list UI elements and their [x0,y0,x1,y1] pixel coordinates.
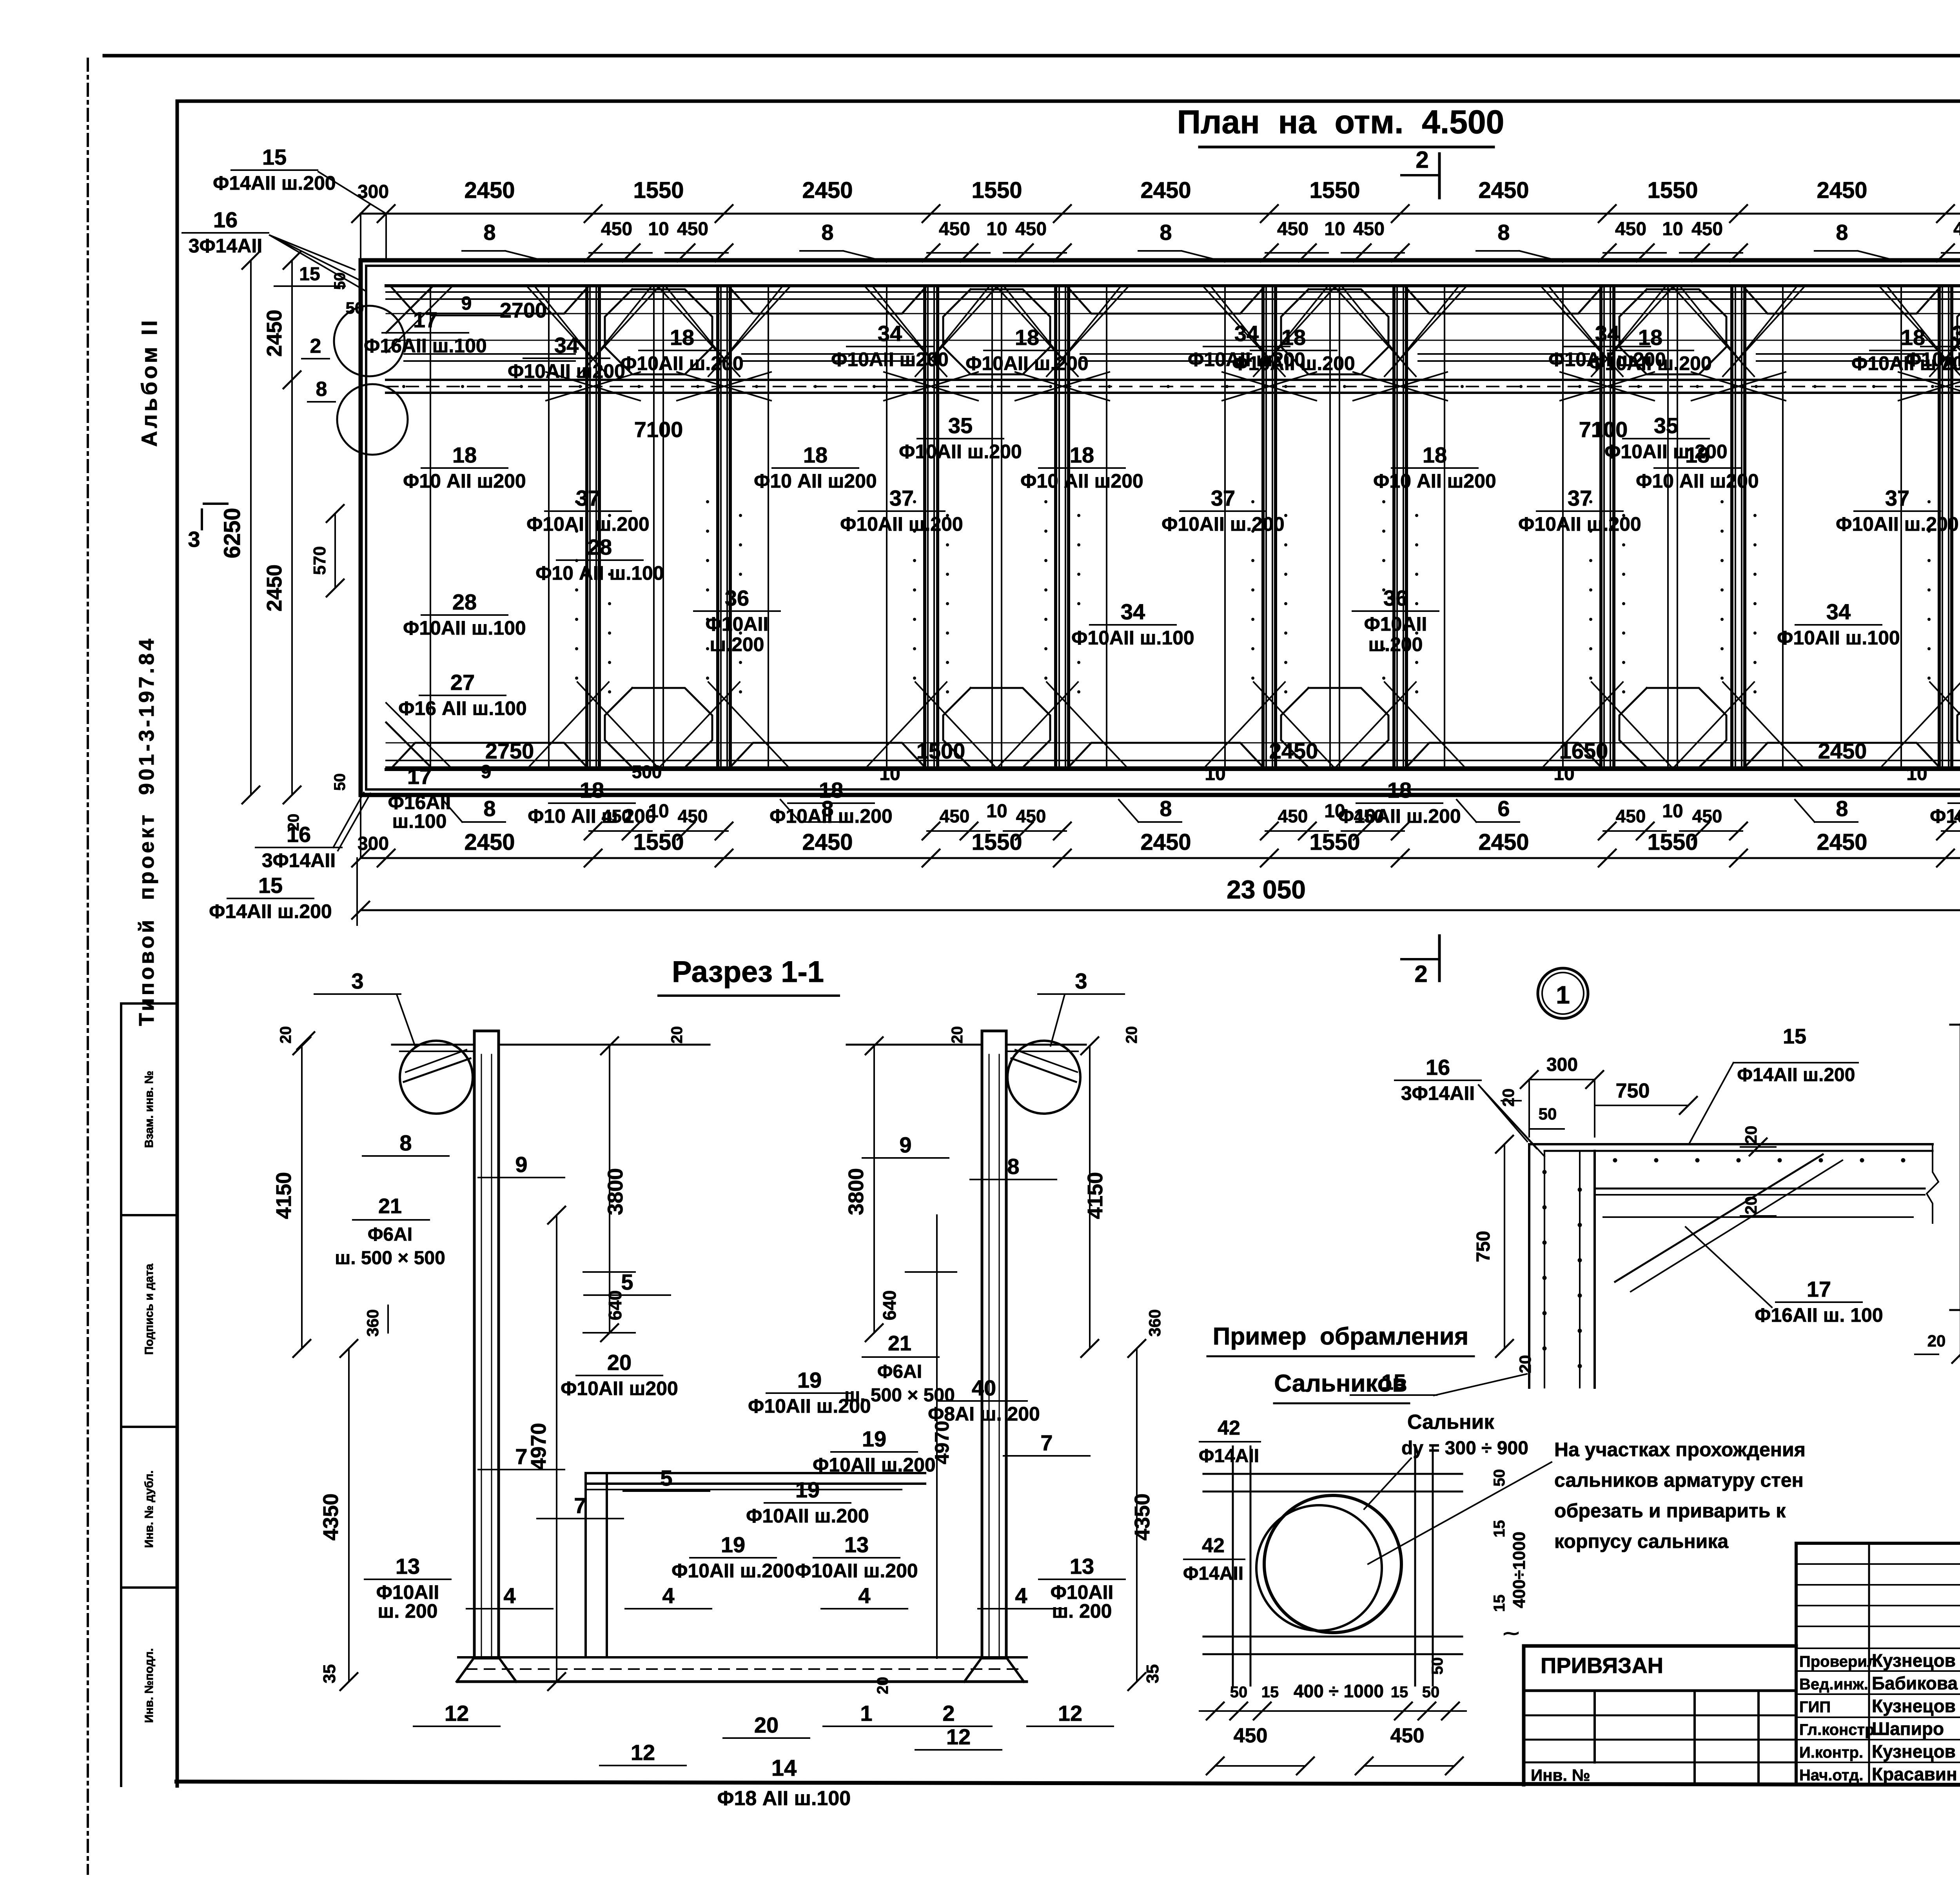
svg-text:21: 21 [378,1194,402,1218]
svg-text:12: 12 [631,1740,655,1765]
svg-text:2450: 2450 [1478,829,1529,855]
partition wall at x=1513 [585,286,588,769]
svg-text:19: 19 [721,1532,745,1557]
svg-text:Типовой проект 901-3-197.84: Типовой проект 901-3-197.84 [135,636,158,1026]
svg-text:6250: 6250 [220,508,245,558]
svg-text:2450: 2450 [802,178,853,203]
svg-text:обрезать и приварить к: обрезать и приварить к [1554,1500,1786,1522]
svg-text:400 ÷ 1000: 400 ÷ 1000 [1294,1681,1384,1701]
svg-text:450: 450 [1616,806,1646,826]
svg-text:20: 20 [1927,1332,1946,1350]
svg-text:dу = 300 ÷ 900: dу = 300 ÷ 900 [1401,1438,1528,1459]
footing flares [457,1657,474,1682]
svg-text:450: 450 [601,219,632,240]
svg-text:8: 8 [316,378,327,401]
title block [1524,1644,1796,1648]
svg-text:36: 36 [1383,586,1408,610]
left vertical dims [291,260,293,795]
svg-text:50: 50 [1429,1657,1446,1675]
svg-text:7100: 7100 [1579,417,1628,442]
svg-text:19: 19 [795,1477,820,1502]
svg-text:20: 20 [1499,1089,1517,1107]
salnik drawing [1203,1473,1462,1475]
svg-text:3: 3 [188,527,200,552]
svg-text:Φ14АII ш.200: Φ14АII ш.200 [1737,1065,1855,1085]
svg-text:450: 450 [1015,219,1047,240]
trapezoid hatch wide cell [1744,287,1940,314]
svg-text:15: 15 [299,264,320,285]
svg-text:34: 34 [554,333,579,357]
svg-text:План на отм. 4.500: План на отм. 4.500 [1177,103,1504,140]
partition wall at x=4963 [1938,286,1941,769]
svg-text:Φ10АII ш200: Φ10АII ш200 [508,360,625,382]
svg-text:2700: 2700 [500,299,547,322]
svg-text:450: 450 [1234,1724,1268,1747]
svg-text:5: 5 [660,1466,672,1490]
svg-text:6: 6 [1497,796,1510,821]
svg-text:4150: 4150 [272,1172,296,1219]
svg-text:Φ10АII ш.100: Φ10АII ш.100 [403,617,526,639]
svg-text:8: 8 [1836,220,1848,245]
svg-text:2450: 2450 [802,829,853,855]
svg-text:Φ10АII ш.200: Φ10АII ш.200 [899,441,1022,463]
svg-text:Φ10АIIш. 200: Φ10АIIш. 200 [1051,1581,1114,1622]
svg-text:Пример обрамления: Пример обрамления [1213,1323,1468,1350]
svg-text:1650: 1650 [1559,739,1608,763]
svg-text:Φ10АII ш.200: Φ10АII ш.200 [746,1505,869,1527]
svg-text:Φ16 АII ш.100: Φ16 АII ш.100 [398,697,526,719]
svg-text:Φ10АII ш.200: Φ10АII ш.200 [1518,513,1641,535]
svg-text:15: 15 [262,145,287,169]
svg-text:27: 27 [450,670,475,695]
svg-text:37: 37 [1885,486,1909,510]
svg-text:20: 20 [277,1026,294,1044]
svg-text:Красавин: Красавин [1872,1764,1957,1784]
svg-text:2: 2 [310,335,321,357]
svg-text:2450: 2450 [1269,739,1318,763]
svg-text:1550: 1550 [971,178,1022,203]
svg-text:1550: 1550 [1309,178,1360,203]
svg-text:2450: 2450 [1140,178,1191,203]
svg-text:13: 13 [1070,1554,1094,1579]
svg-text:Φ10АII ш.200: Φ10АII ш.200 [1836,513,1958,535]
plan bottom wall inner face [386,768,1960,771]
trapezoid hatch wide cell [392,287,588,314]
svg-text:19: 19 [797,1368,822,1392]
detail 1 circle [1538,968,1588,1018]
svg-text:34: 34 [878,321,902,346]
svg-text:2450: 2450 [464,829,515,855]
svg-text:10: 10 [1205,764,1225,784]
dotted columns at partitions [575,500,578,503]
svg-text:ГИП: ГИП [1799,1698,1831,1716]
sheet bottom border [176,1782,1960,1786]
detail 1 slab end break [1927,1144,1938,1223]
sheet outer top border [104,54,1960,58]
left stamp strip [120,1003,122,1786]
svg-text:1550: 1550 [1647,829,1698,855]
svg-text:9: 9 [899,1132,911,1157]
svg-text:Подпись и дата: Подпись и дата [143,1263,156,1355]
svg-text:450: 450 [1953,219,1960,240]
svg-text:Φ10АII ш.100: Φ10АII ш.100 [1071,627,1194,649]
detail 1 top surface and slab [1529,1143,1933,1145]
svg-text:1550: 1550 [633,178,684,203]
svg-text:15: 15 [1261,1684,1279,1701]
svg-text:Φ10АII ш200: Φ10АII ш200 [1188,348,1305,370]
svg-text:19: 19 [862,1426,886,1451]
rebar dots along mid wall [402,385,405,388]
svg-text:20: 20 [874,1677,891,1695]
svg-text:Φ10АII ш.200: Φ10АII ш.200 [621,352,743,374]
svg-text:Φ14АII: Φ14АII [1183,1563,1243,1584]
svg-text:20: 20 [949,1026,966,1044]
section dims [301,1046,303,1348]
svg-text:20: 20 [754,1713,779,1737]
svg-text:2450: 2450 [1818,739,1867,763]
svg-text:34: 34 [1952,321,1960,346]
svg-text:20: 20 [668,1026,686,1044]
svg-text:И.контр.: И.контр. [1799,1744,1863,1761]
svg-text:Φ10АII ш200: Φ10АII ш200 [831,348,949,370]
svg-text:10: 10 [1906,764,1927,784]
svg-text:14: 14 [771,1755,797,1781]
salnik circles [1264,1495,1401,1633]
svg-text:450: 450 [677,219,708,240]
svg-text:Φ10АII ш.200: Φ10АII ш.200 [748,1395,871,1417]
detail circle 5 top-left [334,306,405,376]
svg-text:Бабикова: Бабикова [1872,1673,1958,1693]
svg-text:18: 18 [803,443,828,467]
svg-text:1: 1 [1556,981,1570,1009]
detail circles on section [400,1041,473,1114]
svg-text:10: 10 [879,764,900,784]
svg-text:20: 20 [1742,1196,1760,1215]
svg-text:15: 15 [1391,1684,1408,1701]
trapezoid hatch wide cell [1406,287,1602,314]
svg-text:Φ14АII: Φ14АII [1199,1446,1259,1466]
svg-text:8: 8 [483,220,495,245]
svg-text:Φ18 АII ш.100: Φ18 АII ш.100 [717,1787,851,1810]
svg-text:Нач.отд.: Нач.отд. [1799,1767,1863,1784]
svg-text:3Φ14АII: 3Φ14АII [189,235,262,257]
plan outer wall rectangle [361,260,1960,795]
svg-text:450: 450 [1277,219,1308,240]
svg-text:20: 20 [1516,1355,1534,1374]
svg-text:450: 450 [939,219,970,240]
svg-text:360: 360 [363,1309,382,1337]
partition wall at x=1847 [716,286,719,769]
svg-text:36: 36 [725,586,749,610]
octagon hatch top narrow cell [1957,289,1960,374]
svg-text:4: 4 [662,1583,674,1608]
svg-text:3Φ14АII: 3Φ14АII [262,849,336,871]
svg-text:Φ10АII ш.200: Φ10АII ш.200 [795,1560,918,1582]
svg-text:1550: 1550 [1309,829,1360,855]
partition wall at x=2375 [923,286,926,769]
svg-text:750: 750 [1616,1080,1650,1102]
svg-text:570: 570 [310,546,329,575]
svg-text:12: 12 [946,1724,971,1749]
svg-text:35: 35 [320,1664,339,1684]
svg-text:7: 7 [574,1493,586,1518]
svg-text:корпусу сальника: корпусу сальника [1554,1530,1729,1552]
svg-text:34: 34 [1121,599,1145,624]
svg-text:ш. 500 × 500: ш. 500 × 500 [335,1248,445,1268]
svg-text:Φ16АIIш.100: Φ16АIIш.100 [388,791,451,832]
svg-text:17: 17 [407,764,432,789]
svg-text:На участках прохождения: На участках прохождения [1554,1439,1806,1461]
sheet outer dash-dot margin line [87,59,89,1874]
partition wall at x=2710 [1054,286,1057,769]
svg-text:Φ10АII ш.200: Φ10АII ш.200 [840,513,963,535]
svg-text:Φ10АII ш200: Φ10АII ш200 [1548,348,1666,370]
svg-text:8: 8 [1160,796,1172,821]
svg-text:Φ10АII ш.200: Φ10АII ш.200 [1604,441,1727,463]
svg-text:50: 50 [346,299,364,317]
svg-text:7: 7 [1040,1430,1053,1455]
svg-text:8: 8 [821,220,833,245]
svg-text:37: 37 [1211,486,1235,510]
svg-text:Φ10АIIш.200: Φ10АIIш.200 [706,613,769,655]
section mark 2 top [1438,154,1441,198]
svg-text:2750: 2750 [485,739,534,763]
svg-text:2: 2 [1416,147,1428,173]
svg-text:2450: 2450 [1478,178,1529,203]
svg-text:13: 13 [844,1532,869,1557]
svg-text:9: 9 [515,1152,527,1177]
svg-text:1: 1 [860,1701,872,1726]
svg-text:37: 37 [576,486,600,510]
octagon hatch top narrow cell [943,289,1050,374]
svg-text:450: 450 [940,806,970,826]
svg-text:18: 18 [1423,443,1447,467]
longitudinal rebar lines bottom [386,760,1960,761]
svg-text:Φ10 АII ш 200: Φ10 АII ш 200 [528,805,656,827]
svg-text:4970: 4970 [527,1423,550,1470]
svg-text:28: 28 [452,590,477,614]
svg-text:15: 15 [1783,1025,1806,1048]
svg-text:450: 450 [1615,219,1646,240]
svg-text:50: 50 [1422,1684,1440,1701]
svg-text:10: 10 [1662,801,1683,822]
top slab stubs [392,1044,474,1046]
title block: signature table [1796,1542,1960,1545]
svg-text:7100: 7100 [634,417,683,442]
detail 1 wall [1528,1144,1530,1388]
detail 1 top dims [1529,1079,1595,1080]
svg-text:⁓: ⁓ [1503,1625,1519,1642]
longitudinal rebar lines top [386,291,1960,293]
svg-text:35: 35 [1654,413,1678,438]
svg-text:Гл.констр: Гл.констр [1799,1721,1875,1738]
svg-text:40: 40 [972,1375,996,1400]
svg-text:Альбом II: Альбом II [137,318,162,447]
svg-text:10: 10 [1324,219,1345,240]
svg-text:5: 5 [621,1270,633,1294]
svg-text:17: 17 [1807,1277,1831,1301]
section right wall [982,1031,1006,1658]
witness lines top chain [360,214,361,260]
svg-text:Φ10АII ш.100: Φ10АII ш.100 [1777,627,1900,649]
svg-text:37: 37 [1568,486,1592,510]
svg-text:18: 18 [819,778,843,802]
svg-text:2450: 2450 [1817,178,1867,203]
svg-text:Φ14АII ш.200: Φ14АII ш.200 [213,172,336,194]
partition wall at x=3238 [1261,286,1265,769]
svg-text:Φ10 АII ш200: Φ10 АII ш200 [1373,470,1496,492]
svg-text:20: 20 [1742,1126,1760,1144]
svg-text:18: 18 [580,778,604,802]
svg-text:640: 640 [879,1290,900,1321]
svg-text:16: 16 [1426,1055,1450,1080]
svg-text:2450: 2450 [1817,829,1867,855]
svg-text:сальников арматуру стен: сальников арматуру стен [1554,1469,1804,1491]
svg-text:20: 20 [285,814,302,831]
svg-text:1550: 1550 [971,829,1022,855]
svg-text:20: 20 [1123,1026,1140,1044]
svg-text:3800: 3800 [844,1168,868,1215]
octagon hatch top narrow cell [1619,289,1726,374]
svg-text:2: 2 [942,1701,955,1726]
svg-text:21: 21 [888,1332,911,1355]
svg-text:Φ16АII ш.100: Φ16АII ш.100 [364,335,486,357]
svg-text:Инв. № дубл.: Инв. № дубл. [143,1470,156,1548]
svg-text:50: 50 [1539,1105,1557,1123]
svg-text:35: 35 [948,413,973,438]
svg-text:Разрез 1-1: Разрез 1-1 [672,955,824,989]
svg-text:16: 16 [213,207,238,232]
svg-text:8: 8 [1497,220,1510,245]
svg-text:Φ10 АII ш200: Φ10 АII ш200 [754,470,877,492]
octagon hatch top narrow cell [605,289,712,374]
svg-text:4: 4 [1015,1583,1027,1608]
svg-text:2450: 2450 [263,310,286,357]
svg-text:2450: 2450 [1140,829,1191,855]
svg-text:Φ10АII ш200: Φ10АII ш200 [561,1377,678,1399]
svg-text:Φ10АII ш.200: Φ10АII ш.200 [671,1560,794,1582]
corner chamfers [386,286,433,333]
svg-text:Шапиро: Шапиро [1872,1718,1944,1739]
svg-text:Φ14АII ш.200: Φ14АII ш.200 [209,900,332,922]
svg-text:Φ10АIIш. 200: Φ10АIIш. 200 [376,1581,439,1622]
svg-text:10: 10 [986,219,1007,240]
partition wall at x=4435 [1730,286,1733,769]
svg-text:50: 50 [1230,1684,1248,1701]
svg-text:300: 300 [358,833,389,854]
svg-text:Проверил: Проверил [1799,1653,1877,1670]
svg-text:15: 15 [1491,1520,1508,1538]
svg-text:8: 8 [399,1130,412,1155]
svg-text:18: 18 [1070,443,1094,467]
svg-text:28: 28 [588,535,612,559]
svg-text:50: 50 [1491,1469,1508,1487]
interior horizontal wall [386,379,1960,381]
trapezoid hatch wide cell [730,287,926,314]
svg-text:17: 17 [413,307,437,332]
svg-text:10: 10 [1553,764,1574,784]
svg-text:Кузнецов: Кузнецов [1872,1696,1956,1716]
svg-text:8: 8 [483,796,495,821]
svg-text:Φ10 АII ш200: Φ10 АII ш200 [1020,470,1143,492]
svg-text:Φ16АII ш. 100: Φ16АII ш. 100 [1755,1304,1883,1326]
svg-text:15: 15 [258,873,283,898]
svg-text:50: 50 [331,272,348,290]
svg-text:10: 10 [986,801,1007,822]
svg-text:450: 450 [1691,219,1723,240]
svg-text:360: 360 [1145,1309,1164,1337]
svg-text:Φ10АIIш.200: Φ10АIIш.200 [1364,613,1427,655]
svg-text:4350: 4350 [1131,1493,1154,1541]
svg-text:Вед.инж.: Вед.инж. [1799,1676,1868,1693]
svg-text:Φ10АII ш.200: Φ10АII ш.200 [1338,805,1461,827]
svg-text:12: 12 [445,1701,469,1726]
svg-text:Инв. №подл.: Инв. №подл. [143,1648,156,1723]
svg-text:Кузнецов: Кузнецов [1872,1741,1956,1762]
svg-text:Φ10 АII ш.100: Φ10 АII ш.100 [535,562,664,584]
plan top wall inner face [386,284,1960,287]
svg-text:13: 13 [396,1554,420,1579]
svg-text:ПРИВЯЗАН: ПРИВЯЗАН [1541,1653,1663,1678]
svg-text:18: 18 [1387,778,1412,802]
svg-text:Взам. инв. №: Взам. инв. № [143,1071,156,1148]
svg-text:2: 2 [1414,961,1427,987]
svg-text:Φ10АII ш.200: Φ10АII ш.200 [526,513,649,535]
svg-text:2450: 2450 [263,564,286,611]
svg-text:8: 8 [1007,1154,1019,1179]
detail 1 diagonal rebar [1615,1154,1823,1282]
svg-text:450: 450 [1353,219,1385,240]
svg-text:4: 4 [858,1583,870,1608]
svg-text:Сальников: Сальников [1274,1370,1407,1397]
svg-text:15: 15 [1491,1595,1508,1612]
svg-text:500: 500 [632,762,662,782]
svg-text:20: 20 [607,1350,632,1375]
trapezoid hatch wide cell [1068,287,1264,314]
svg-text:Φ10АII ш.200: Φ10АII ш.200 [769,805,892,827]
svg-text:3: 3 [351,969,363,993]
svg-text:Φ10АII ш.200: Φ10АII ш.200 [965,352,1088,374]
svg-text:Кузнецов: Кузнецов [1872,1650,1956,1671]
svg-text:3800: 3800 [604,1168,627,1215]
svg-text:Φ10АII ш200: Φ10АII ш200 [1905,348,1960,370]
svg-text:18: 18 [670,325,694,350]
section interior slab (right half) [586,1472,925,1474]
svg-text:34: 34 [1826,599,1851,624]
svg-text:10: 10 [648,219,669,240]
partition wall at x=3572 [1392,286,1396,769]
svg-text:1550: 1550 [1647,178,1698,203]
svg-text:3: 3 [1075,969,1087,993]
svg-text:10: 10 [1662,219,1683,240]
svg-text:9: 9 [481,762,492,782]
svg-text:450: 450 [1390,1724,1425,1747]
overall dimension 23050 [361,909,1960,911]
svg-text:8: 8 [1836,796,1848,821]
svg-text:Φ6АI: Φ6АI [877,1361,922,1382]
svg-text:4150: 4150 [1083,1172,1107,1219]
svg-text:400÷1000: 400÷1000 [1510,1531,1529,1608]
svg-text:34: 34 [1234,321,1259,346]
svg-text:8: 8 [1160,220,1172,245]
detail circle lower-left [337,384,408,455]
svg-text:Φ10АII ш.200: Φ10АII ш.200 [813,1454,935,1476]
svg-text:Сальник: Сальник [1407,1411,1494,1433]
inner frame top [177,100,1960,103]
svg-text:Φ6АI: Φ6АI [368,1224,412,1245]
svg-text:18: 18 [452,443,477,467]
svg-text:4350: 4350 [319,1493,343,1541]
